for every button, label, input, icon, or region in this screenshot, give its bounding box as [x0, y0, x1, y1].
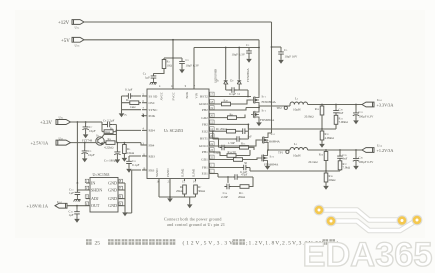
capacitor C10 180uF on 2.5V out	[116, 143, 118, 150]
caption title hanzi blocks	[108, 239, 114, 245]
svg-text:RD4: RD4	[149, 129, 156, 133]
node AVCC tap	[172, 39, 174, 41]
svg-text:SYNC: SYNC	[149, 108, 159, 112]
svg-text:+5V: +5V	[61, 39, 70, 44]
resistor R13 boot ch1	[240, 146, 249, 150]
capacitor C27 fb1 series	[241, 165, 248, 171]
svg-text:20kΩ: 20kΩ	[176, 189, 184, 193]
wire switch node ch1	[268, 145, 290, 150]
ground PGND	[167, 197, 173, 202]
connector J6 +3.3V/3A output	[362, 102, 374, 107]
svg-text:1kΩ: 1kΩ	[105, 130, 111, 134]
ground below C5	[280, 57, 282, 59]
op-amp U1 SC2453 controller IC body	[147, 89, 209, 179]
pin U2 GND	[118, 189, 125, 191]
resistor R17 7.9k ch1 fb	[338, 161, 342, 170]
svg-text:GD1O: GD1O	[199, 144, 209, 148]
capacitor C18 comp ch2	[240, 128, 247, 134]
svg-text:+3.3V: +3.3V	[40, 121, 53, 126]
ground below R18	[325, 182, 327, 185]
ground below R5	[123, 154, 125, 157]
wire Q4 drain to +12V	[268, 131, 272, 135]
capacitor C20 3nF ch2 fb	[335, 105, 337, 109]
node POK marker	[141, 114, 144, 117]
svg-text:FDS6894A: FDS6894A	[266, 140, 281, 144]
wire EO1 line	[215, 174, 232, 178]
pin U1 SYNC	[142, 109, 147, 111]
svg-text:20.1kΩ: 20.1kΩ	[308, 160, 318, 164]
svg-text:GND: GND	[108, 196, 117, 201]
pin U1 FB2	[209, 123, 215, 125]
capacitor C1 1uF AVCC	[151, 73, 157, 80]
svg-text:BST1: BST1	[200, 136, 208, 140]
svg-text:C8 2.2μF: C8 2.2μF	[103, 119, 115, 123]
svg-text:0.1μF: 0.1μF	[132, 163, 140, 167]
svg-text:GND: GND	[108, 203, 117, 208]
pin U1 RD3	[142, 155, 147, 157]
svg-text:FB3: FB3	[149, 168, 155, 172]
pin U1 SS SD	[142, 95, 147, 97]
svg-text:ILIM2: ILIM2	[181, 168, 185, 177]
node U2 IN junction	[77, 182, 79, 184]
pin U1 BST2	[209, 96, 215, 98]
svg-text:25: 25	[95, 241, 101, 247]
resistor R18 20k fb low ch1	[325, 171, 327, 173]
svg-text:VIN: VIN	[194, 92, 198, 98]
ground below C9	[84, 156, 86, 157]
svg-text:OUT: OUT	[91, 203, 100, 208]
svg-text:Uo1: Uo1	[59, 136, 65, 140]
wire U2 ground bus	[124, 183, 126, 211]
wire GD1O to Q4 gate	[215, 140, 260, 146]
svg-text:+12V: +12V	[58, 21, 70, 26]
resistor R11 7.90k ch2 fb	[334, 115, 338, 124]
pin U1 GD1O	[209, 145, 215, 147]
watermark pad D	[412, 215, 423, 226]
transistor Q2 FDS6894A high-side ch2	[251, 95, 259, 105]
svg-text:GND: GND	[108, 181, 117, 186]
capacitor C7 10uF on 3.3V input	[85, 122, 87, 124]
resistor R4 4.22k	[106, 141, 115, 145]
resistor R7 30k ILIM1	[194, 185, 198, 194]
resistor R2 1k on OSC pin	[130, 101, 139, 105]
svg-text:ILIM1: ILIM1	[192, 168, 196, 177]
wire BST2 line	[215, 96, 251, 98]
svg-text:BST2: BST2	[200, 95, 208, 99]
svg-text:FDS6894A: FDS6894A	[262, 100, 277, 104]
capacitor C2 10uF 6.3V AVCC bulk	[173, 57, 182, 60]
wire FB1 line to sense rail	[215, 168, 250, 172]
svg-text:30kΩ: 30kΩ	[198, 189, 206, 193]
svg-text:TP2: TP2	[277, 106, 283, 110]
ground left-pin bus	[121, 96, 123, 112]
svg-text:100μF 6.3V: 100μF 6.3V	[359, 115, 375, 119]
ground stub below rail	[189, 197, 191, 203]
caption output hanzi	[323, 239, 329, 245]
capacitor C24 2.2nF ch1 comp	[224, 184, 231, 190]
watermark pad C	[397, 215, 408, 226]
svg-text:POK: POK	[149, 114, 156, 118]
svg-text:SGND: SGND	[155, 168, 159, 177]
svg-text:1μF: 1μF	[69, 213, 74, 217]
svg-text:20.0kΩ: 20.0kΩ	[304, 114, 314, 118]
pin U1 GD2O	[209, 103, 215, 105]
svg-text:10μF 16V: 10μF 16V	[285, 55, 298, 59]
svg-text:1.5nF: 1.5nF	[228, 141, 235, 145]
pin U1 FB3	[142, 169, 147, 171]
wire base stub	[102, 135, 116, 138]
svg-text:7.90kΩ: 7.90kΩ	[339, 120, 349, 124]
svg-text:47pF: 47pF	[241, 173, 248, 177]
ground below C14	[76, 216, 78, 217]
ground below C2	[181, 66, 183, 68]
pin U2 IN	[86, 182, 90, 184]
transistor Q5 FDS6894A low-side ch1	[260, 153, 268, 163]
ground below C12	[76, 196, 78, 199]
svg-text:100μF 6.3V: 100μF 6.3V	[359, 160, 375, 164]
svg-text:GD2: GD2	[201, 116, 208, 120]
resistor R3 1k base network	[104, 130, 113, 134]
svg-text:EO2: EO2	[202, 129, 208, 133]
svg-text:and control ground at U1 pin 2: and control ground at U1 pin 21	[167, 222, 225, 227]
svg-text:AVCC: AVCC	[159, 92, 163, 100]
pin U1 ILIM2 bottom	[184, 179, 186, 182]
resistor R10 20.0k divider top ch2	[321, 105, 323, 107]
wire L2 to +1.2V connector	[308, 149, 362, 151]
pin U1 GD2	[209, 117, 215, 119]
pin U2 GND	[118, 182, 125, 184]
svg-text:Uo2: Uo2	[57, 200, 63, 204]
wire Q2 drain to +5V rail	[258, 94, 260, 97]
wire Q5 drain to switch node	[267, 150, 269, 153]
wire EO2 line	[215, 130, 226, 132]
resistor R5 10k FB4 divider	[123, 143, 125, 145]
pin U1 EO2	[209, 130, 215, 132]
wire FB2 sense rail ch2	[248, 128, 336, 130]
connector J7 +1.2V/3A output	[362, 148, 374, 153]
svg-text:10Ω: 10Ω	[167, 64, 173, 68]
pin U2 GND	[118, 198, 125, 200]
resistor R16 20.1k divider ch1	[325, 150, 327, 152]
svg-text:10μF 6.3V: 10μF 6.3V	[231, 53, 245, 57]
svg-text:GD1: GD1	[201, 158, 208, 162]
wire +12V bypass branch	[272, 46, 282, 48]
resistor R1 10 ohm AVCC filter	[164, 58, 173, 60]
wire PH2 sense	[215, 108, 246, 111]
capacitor C22 0.1uF bootstrap ch1	[219, 145, 226, 151]
svg-text:0.1μF: 0.1μF	[125, 88, 133, 92]
wire 2.5V output line	[71, 143, 147, 145]
inductor L1 10uH ch2	[290, 102, 308, 105]
svg-text:EO1: EO1	[202, 172, 208, 176]
svg-text:RD3: RD3	[149, 154, 156, 158]
wire 1.8V output line	[67, 205, 86, 207]
ground U2 bus	[122, 211, 128, 216]
capacitor C14 1uF on 1.8V out	[76, 206, 78, 210]
wire GD2 line with gate resistor	[228, 116, 237, 120]
caption figure number block	[86, 239, 92, 245]
wire 3.3V feed down to U2 IN	[76, 122, 78, 183]
svg-text:PGND: PGND	[166, 168, 170, 177]
svg-text:SS SD: SS SD	[149, 94, 158, 98]
wire BST1 line	[215, 138, 219, 147]
capacitor C11 0.1uF on RD3	[129, 156, 141, 159]
svg-text:PH2: PH2	[202, 108, 208, 112]
pin U1 POK	[142, 115, 147, 117]
svg-text:3nF: 3nF	[247, 135, 252, 139]
svg-text:3nF: 3nF	[339, 111, 344, 115]
wire FB2 line	[215, 124, 248, 129]
svg-text:BOK: BOK	[185, 91, 189, 98]
wire Q3 source to ground	[258, 120, 260, 122]
svg-text:R14 50: R14 50	[228, 150, 237, 154]
svg-text:Uo4: Uo4	[377, 144, 383, 148]
svg-text:20kΩ: 20kΩ	[329, 178, 337, 182]
svg-text:EDA365: EDA365	[303, 236, 433, 273]
wire +12V rail to high-side drain ch1	[84, 22, 272, 131]
svg-text:(12V,5V,3.3V: (12V,5V,3.3V	[183, 240, 235, 247]
svg-text:FDS6894A: FDS6894A	[260, 118, 275, 122]
op-amp U2 SC1563 LDO body	[90, 178, 118, 213]
svg-text:1kΩ: 1kΩ	[130, 105, 136, 109]
resistor R14 50 snub	[227, 154, 236, 158]
svg-text:1μF: 1μF	[69, 191, 74, 195]
svg-text:20kΩ: 20kΩ	[238, 195, 246, 199]
svg-text:10μH: 10μH	[293, 108, 301, 112]
wire +3.3V rail	[71, 121, 103, 123]
svg-text:10μF 6.3V: 10μF 6.3V	[186, 64, 200, 68]
svg-text:10μF: 10μF	[88, 153, 95, 157]
connector J3 +3.3V input	[56, 120, 71, 125]
svg-text:FB2: FB2	[202, 123, 208, 127]
watermark pad B	[326, 216, 337, 227]
testpoint TP1	[286, 150, 289, 153]
svg-text:+3.3V/3A: +3.3V/3A	[377, 103, 394, 108]
svg-text:10kΩ: 10kΩ	[127, 151, 135, 155]
pin U2 OUT	[86, 205, 90, 207]
resistor R6 20k ILIM2	[183, 185, 187, 194]
pin U1 SGND bottom	[158, 179, 160, 198]
svg-text:1μF: 1μF	[145, 76, 150, 80]
svg-text:U1 SC2453: U1 SC2453	[164, 128, 183, 133]
pin U1 OSC	[142, 102, 147, 104]
pin U1 ILIM1 bottom	[195, 179, 197, 182]
watermark pcb trace outline	[319, 210, 417, 231]
svg-text:U3 SC1563: U3 SC1563	[93, 173, 110, 177]
svg-text:4.22kΩ: 4.22kΩ	[104, 145, 114, 149]
wire R1 to C1	[154, 69, 165, 74]
capacitor C16 0.1uF x2 bootstrap	[229, 87, 236, 93]
pin U1 GD1	[209, 159, 215, 161]
svg-text:10μH: 10μH	[293, 153, 301, 157]
wire SHDN tie	[77, 183, 86, 190]
capacitor C23 47pF ch1 comp	[232, 174, 239, 180]
svg-text:4.99kΩ: 4.99kΩ	[325, 136, 335, 140]
pin U2 ADJ	[86, 198, 90, 200]
connector J1 +12V input	[72, 20, 84, 25]
pin U1 PGND bottom	[169, 179, 171, 198]
ground below C26	[355, 163, 357, 164]
pin U1 PH2	[209, 109, 215, 111]
svg-text:Connect both the power ground: Connect both the power ground	[164, 217, 222, 222]
svg-text:SHDN: SHDN	[91, 188, 102, 193]
pin U1 FB1	[209, 167, 215, 169]
pin U1 RD4	[142, 129, 147, 131]
capacitor C26 100uF 6.3V ch1 out	[355, 150, 357, 156]
wire L1 to +3.3V connector	[290, 105, 362, 107]
svg-text:ADJ: ADJ	[91, 196, 99, 201]
wire VCC sub-rail	[173, 40, 259, 89]
wire Q5 source ground	[267, 163, 269, 165]
svg-text:+1.8V/0.1A: +1.8V/0.1A	[27, 204, 49, 209]
testpoint TP2	[284, 106, 287, 109]
wire FB1 sense rail ch1	[250, 170, 340, 172]
svg-text:3nF: 3nF	[343, 156, 348, 160]
diode D2 1N5819HB bootstrap ch1	[238, 48, 240, 80]
resistor R15 20k ch1 comp	[240, 185, 249, 189]
wire FB3 to 1.8V sense	[125, 170, 141, 213]
pin U1 PH1	[209, 151, 215, 153]
svg-text:2.2nF: 2.2nF	[221, 195, 228, 199]
svg-text:FB4: FB4	[149, 143, 155, 147]
ground below C10	[116, 157, 118, 158]
resistor R20 gate GD1	[234, 158, 243, 162]
wire ground rail below U1	[159, 196, 196, 198]
wire +5V rail to high-side drain ch2	[84, 40, 259, 95]
svg-text:FB1: FB1	[202, 166, 208, 170]
ground below C7	[85, 132, 87, 133]
wire GD2O to Q2 gate	[215, 100, 251, 104]
capacitor C19 1.5nF comp ch2	[213, 131, 235, 139]
wire switch node ch2	[246, 105, 290, 110]
wire RD4 drive line	[116, 129, 141, 131]
diode D1 1N5819HB bootstrap ch2	[225, 48, 227, 80]
svg-text:IN: IN	[91, 181, 95, 186]
svg-text:U1b: U1b	[75, 43, 81, 47]
resistor R12 4.99k fb low ch2	[321, 129, 323, 131]
svg-text:+2.5V/1A: +2.5V/1A	[31, 141, 50, 146]
svg-text:GD2O: GD2O	[199, 102, 209, 106]
capacitor C25 3nF ch1 fb	[339, 150, 341, 154]
ground below C21	[355, 118, 357, 119]
capacitor C12 1uF at U2 input	[76, 189, 78, 192]
svg-text:GND: GND	[108, 188, 117, 193]
capacitor C3 10uF 6.3V PVCC bulk	[248, 47, 250, 50]
pin U2 GND	[118, 205, 125, 207]
ground below C1	[150, 81, 157, 85]
connector J5 +1.8V/0.1A output	[55, 203, 67, 208]
svg-text:50: 50	[244, 161, 248, 165]
transistor Q4 FDS6894A high-side ch1	[260, 135, 268, 145]
svg-text:PH1: PH1	[202, 150, 208, 154]
wire GD1 to Q5 gate	[215, 158, 260, 160]
transistor Q3 FDS6894A low-side ch2	[251, 110, 259, 120]
connector J2 +5V input	[72, 37, 84, 42]
wire PH1 sense drop	[249, 150, 251, 156]
svg-text:7.9kΩ: 7.9kΩ	[343, 166, 351, 170]
svg-text:+1.2V/3A: +1.2V/3A	[377, 148, 394, 153]
svg-text:PVCC: PVCC	[171, 92, 175, 100]
connector J4 +2.5V/1A output	[56, 140, 71, 145]
svg-text:OSC: OSC	[149, 101, 156, 105]
watermark pad A	[314, 205, 325, 216]
ground below R12	[321, 140, 323, 143]
pin U1 EO1	[209, 173, 215, 175]
capacitor C5 10uF 16V 12V input bypass	[280, 47, 282, 49]
svg-text:0.1μF ×2: 0.1μF ×2	[229, 92, 240, 96]
svg-text:FDS6894A: FDS6894A	[264, 163, 279, 167]
pin U2 SHDN	[86, 189, 90, 191]
capacitor C21 100uF 6.3V ch2 out	[355, 105, 357, 111]
transistor Q1 FZT749 PNP pass 2.5V	[96, 137, 104, 145]
wire boot diode join	[226, 86, 248, 97]
ground below C3	[248, 56, 250, 58]
svg-text:TP1: TP1	[278, 150, 284, 154]
resistor R9 20k comp ch2	[227, 129, 236, 133]
pin U1 BST1	[209, 137, 215, 139]
svg-text:Uo3: Uo3	[377, 98, 383, 102]
svg-text:FDS6894A: FDS6894A	[246, 67, 250, 82]
svg-text:10μF: 10μF	[89, 129, 96, 133]
svg-text:F1: F1	[125, 114, 128, 117]
resistor R19 gate GD2O	[222, 102, 231, 106]
ground below C11	[128, 166, 130, 168]
inductor L2 10uH ch1	[290, 148, 308, 151]
svg-text:R9 20kΩ: R9 20kΩ	[216, 127, 228, 131]
caption input hanzi	[233, 239, 239, 245]
wire SYNC to ground bus	[122, 109, 142, 111]
pin U1 FB4	[142, 144, 147, 146]
capacitor C9 10uF on 2.5V out	[84, 143, 86, 149]
